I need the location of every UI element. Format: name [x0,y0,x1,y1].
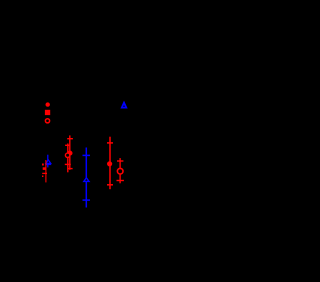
red errorbar point E: open circle [117,158,124,183]
red marker group G [42,160,47,182]
red filled square marker (legend) [45,110,50,115]
red errorbar point C2: open circle [65,144,71,173]
blue filled triangle marker [120,101,127,109]
red filled circle marker (legend) [46,102,50,106]
blue errorbar point H: open triangle [83,148,91,208]
red errorbar point D: filled circle [107,137,113,190]
blue errorbar point F: open triangle [45,155,51,168]
red errorbar point C1: filled circle [67,135,73,169]
red open circle marker (legend) [45,119,49,123]
